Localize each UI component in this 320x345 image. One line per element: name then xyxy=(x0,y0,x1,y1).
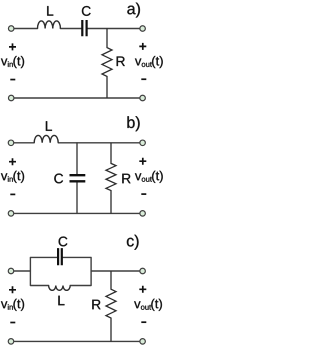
minus b left xyxy=(10,193,15,195)
terminal c in+ xyxy=(8,268,14,274)
resistor R (b) xyxy=(106,143,116,214)
terminal c in- xyxy=(8,339,14,345)
wire b cap branch xyxy=(76,143,78,214)
minus c right xyxy=(141,321,146,323)
plus b left xyxy=(9,158,16,165)
v_in(t) b xyxy=(1,171,24,183)
inductor L (c) xyxy=(49,286,71,291)
v_out(t) c xyxy=(134,299,162,311)
wire a top xyxy=(14,28,139,30)
v_in(t) a xyxy=(1,56,24,68)
label L (a) xyxy=(47,6,53,15)
terminal b in- xyxy=(8,211,14,217)
wire b top xyxy=(14,142,139,144)
plus a right xyxy=(139,43,146,50)
plus a left xyxy=(9,43,16,50)
terminal c out- xyxy=(140,339,146,345)
capacitor C (b) xyxy=(70,175,86,181)
capacitor C (c) xyxy=(58,248,62,265)
inductor L (b) xyxy=(34,135,58,142)
resistor R (a) xyxy=(102,29,112,99)
minus a right xyxy=(141,78,146,80)
label R (a) xyxy=(117,57,125,66)
label R (b) xyxy=(122,174,130,183)
terminal b out- xyxy=(140,211,146,217)
label C (b) xyxy=(54,174,63,184)
terminal a in- xyxy=(8,95,14,101)
wire c left xyxy=(14,270,31,272)
v_in(t) c xyxy=(1,299,24,311)
plus c left xyxy=(9,286,16,293)
terminal c out+ xyxy=(140,268,146,274)
resistor R (c) xyxy=(106,271,116,341)
plus c right xyxy=(139,286,146,293)
minus b right xyxy=(141,193,146,195)
terminal b out+ xyxy=(140,140,146,146)
wire c bottom xyxy=(14,340,139,342)
label c) xyxy=(127,235,139,250)
v_out(t) b xyxy=(135,171,163,183)
wire c right xyxy=(91,270,139,272)
label L (b) xyxy=(46,121,52,130)
LC tank frame (c) xyxy=(30,257,91,285)
label a) xyxy=(127,3,140,18)
minus a left xyxy=(10,79,15,81)
label R (c) xyxy=(92,300,100,309)
label b) xyxy=(127,116,139,131)
plus b right xyxy=(139,158,146,165)
capacitor C (a) xyxy=(82,20,86,36)
label C (c) xyxy=(59,237,68,247)
label C (a) xyxy=(82,6,91,16)
terminal a in+ xyxy=(8,26,14,32)
label L (c) xyxy=(58,296,64,305)
minus c left xyxy=(10,322,15,324)
wire b bottom xyxy=(14,212,139,214)
v_out(t) a xyxy=(135,56,163,68)
terminal b in+ xyxy=(8,140,14,146)
inductor L (a) xyxy=(38,21,61,29)
terminal a out- xyxy=(140,95,146,101)
terminal a out+ xyxy=(140,26,146,32)
wire a bottom xyxy=(14,97,139,99)
